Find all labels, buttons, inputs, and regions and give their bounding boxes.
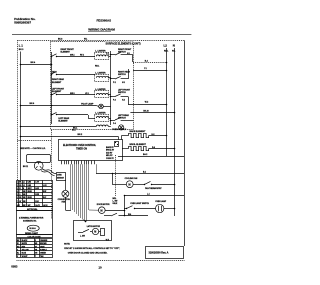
- limiter LL-2: [95, 72, 109, 81]
- svg-text:Y: Y: [19, 191, 20, 193]
- oven dashed wall right: [115, 155, 117, 196]
- svg-text:DOOR MOTOR: DOOR MOTOR: [97, 204, 110, 206]
- svg-text:BK-4: BK-4: [31, 61, 37, 64]
- L1 feed rail: [20, 52, 22, 181]
- svg-text:SW-1: SW-1: [70, 54, 75, 56]
- svg-text:LATCH MOTOR: LATCH MOTOR: [87, 225, 101, 228]
- warmer element coil: [20, 125, 111, 131]
- svg-text:WIRING DIAGRAM: WIRING DIAGRAM: [88, 28, 115, 32]
- wire to L2 y103.5: [128, 101, 167, 105]
- switch SW-1: [51, 54, 95, 57]
- svg-text:NOTE:: NOTE:: [64, 244, 70, 246]
- svg-text:BK-8: BK-8: [58, 39, 62, 41]
- label oven supply: [112, 129, 127, 131]
- svg-text:ELEMENT: ELEMENT: [52, 82, 62, 84]
- svg-text:RIGHT REAR: RIGHT REAR: [52, 78, 65, 81]
- svg-text:WHITE: WHITE: [22, 243, 28, 245]
- label BK near box bottom: [73, 128, 77, 130]
- schematic info box: [17, 211, 53, 236]
- svg-text:UNLK: UNLK: [113, 203, 119, 205]
- svg-text:BK-10: BK-10: [143, 110, 148, 112]
- svg-text:GY: GY: [19, 201, 21, 203]
- wire y215.9: [104, 213, 148, 216]
- see note text: [20, 147, 46, 150]
- chassis dashed outline bottom: [17, 260, 185, 262]
- dashed wire to L2: [133, 60, 167, 63]
- svg-text:SEE NOTE — CAUTION L.R.: SEE NOTE — CAUTION L.R.: [20, 147, 46, 150]
- oven lamp: [155, 200, 175, 213]
- svg-text:ELEMENT: ELEMENT: [61, 52, 71, 54]
- svg-text:L. SW: L. SW: [80, 236, 85, 238]
- svg-text:L 1: L 1: [19, 43, 23, 47]
- svg-text:BROIL RY: BROIL RY: [106, 150, 115, 152]
- wire row2 link: [95, 66, 111, 78]
- cooling fan feed: [112, 173, 127, 185]
- svg-text:FAN THERMOSTAT: FAN THERMOSTAT: [145, 187, 162, 190]
- pilot lamp: [51, 103, 111, 109]
- wire BK-2 to EOC: [20, 134, 119, 139]
- svg-text:E-LF: E-LF: [43, 197, 46, 199]
- svg-text:SENSOR: SENSOR: [57, 178, 65, 180]
- svg-text:SURFACE ELEMENTS (CON'T): SURFACE ELEMENTS (CON'T): [106, 43, 141, 46]
- svg-text:N: N: [173, 44, 175, 48]
- svg-text:2-TERMINAL POWER MOTOR: 2-TERMINAL POWER MOTOR: [19, 216, 44, 219]
- oven dashed wall left: [51, 130, 53, 219]
- svg-text:GREEN: GREEN: [40, 253, 47, 255]
- svg-text:5995268397: 5995268397: [14, 21, 31, 25]
- pilot lamp lower: [119, 125, 124, 130]
- note text: [64, 244, 120, 255]
- svg-text:W-5: W-5: [106, 240, 109, 242]
- label right rear element: [52, 71, 65, 84]
- svg-text:N: N: [23, 188, 24, 190]
- wire row3 link: [70, 93, 111, 95]
- infinite switch column feed: [110, 51, 112, 125]
- svg-text:SWITCH: SWITCH: [118, 74, 126, 76]
- label left rear element: [58, 117, 69, 123]
- switch block right rear: [111, 69, 131, 84]
- wire oven bus y156: [118, 153, 184, 157]
- svg-text:Y-1: Y-1: [144, 68, 147, 70]
- svg-text:BK-7: BK-7: [72, 129, 76, 131]
- header rule: [12, 34, 191, 36]
- wire to N y109: [130, 110, 175, 113]
- chassis dashed outline top: [18, 40, 185, 42]
- svg-text:RD-1: RD-1: [164, 51, 168, 53]
- switch block left front: [111, 89, 131, 104]
- limiter LL-3: [95, 89, 109, 98]
- svg-text:B-16-A: B-16-A: [30, 227, 37, 230]
- svg-text:P-1: P-1: [106, 53, 109, 55]
- svg-text:E-RF: E-RF: [43, 191, 46, 193]
- svg-text:M: M: [94, 231, 96, 234]
- svg-text:LF-1: LF-1: [85, 93, 89, 95]
- svg-text:BK-1: BK-1: [73, 128, 77, 130]
- label right front element: [61, 49, 75, 54]
- approval bar: [17, 207, 53, 211]
- svg-text:BK-2: BK-2: [78, 134, 84, 136]
- svg-text:ELEMENT: ELEMENT: [52, 91, 62, 93]
- svg-text:NEUT: NEUT: [28, 188, 32, 190]
- label left front element: [52, 89, 65, 94]
- part number box: [146, 247, 184, 259]
- svg-text:OVEN SUPPLY: OVEN SUPPLY: [112, 129, 127, 131]
- svg-text:H-4: H-4: [122, 98, 125, 101]
- svg-text:DLB RY: DLB RY: [106, 152, 113, 154]
- color code table: [16, 238, 52, 258]
- svg-text:RF-1: RF-1: [80, 54, 84, 56]
- connection chart table: [16, 180, 52, 207]
- svg-text:H-3: H-3: [122, 82, 125, 84]
- broil element: [122, 144, 175, 151]
- svg-text:ORANGE: ORANGE: [40, 239, 48, 242]
- EOC electronic oven control box: [59, 140, 123, 161]
- svg-text:YELLOW: YELLOW: [22, 250, 29, 252]
- svg-text:GRAY: GRAY: [40, 245, 45, 248]
- svg-text:ELEMENT: ELEMENT: [58, 121, 68, 123]
- ribbon bends to loads: [83, 210, 99, 221]
- svg-text:L. LIMITER: L. LIMITER: [95, 72, 106, 74]
- svg-text:BROIL ELEMENT: BROIL ELEMENT: [130, 144, 147, 146]
- svg-text:L2: L2: [164, 44, 168, 48]
- lamp bus y195.3: [124, 193, 184, 216]
- svg-text:LEFT REAR: LEFT REAR: [58, 117, 69, 120]
- svg-text:OVEN LAMP: OVEN LAMP: [155, 200, 167, 203]
- svg-text:RR-1: RR-1: [95, 66, 99, 68]
- svg-text:OVEN: OVEN: [57, 174, 62, 176]
- oven light switch: [124, 203, 156, 209]
- svg-text:MDL RY: MDL RY: [106, 155, 113, 157]
- svg-text:ELECTRONIC OVEN CONTROL: ELECTRONIC OVEN CONTROL: [63, 145, 97, 147]
- svg-text:OVEN DOOR CLOSED AND UNLOCKED.: OVEN DOOR CLOSED AND UNLOCKED.: [68, 252, 108, 255]
- svg-text:M: M: [128, 183, 131, 187]
- svg-text:FES366AS: FES366AS: [97, 19, 112, 23]
- svg-text:VIOLET: VIOLET: [22, 256, 29, 258]
- switch block left rear: [111, 114, 130, 125]
- wire row1 link: [70, 54, 111, 56]
- header publication number: [14, 17, 35, 24]
- svg-text:W-6: W-6: [128, 214, 131, 216]
- svg-text:BK-11: BK-11: [23, 166, 28, 168]
- EOC bottom pin comb: [62, 161, 95, 165]
- svg-text:M: M: [100, 209, 102, 213]
- svg-text:L1: L1: [23, 182, 25, 184]
- svg-text:COOLING FAN: COOLING FAN: [125, 177, 138, 180]
- svg-text:P-2: P-2: [113, 82, 116, 84]
- limiter LL-1: [95, 50, 109, 59]
- wire BK-6 from L1: [20, 103, 52, 106]
- svg-text:BA-2: BA-2: [143, 153, 147, 156]
- svg-text:L-1: L-1: [147, 193, 150, 195]
- fan thermostat switch: [144, 181, 176, 190]
- svg-text:SWITCH: SWITCH: [118, 92, 126, 94]
- svg-text:W-1: W-1: [84, 39, 87, 41]
- svg-text:SCHEMATIC NO.: SCHEMATIC NO.: [23, 219, 37, 222]
- switch block right front: [106, 49, 133, 62]
- relay block DLB: [115, 142, 119, 147]
- svg-text:TIMER ON: TIMER ON: [76, 148, 87, 150]
- svg-text:PURPLE: PURPLE: [40, 250, 47, 252]
- latch area labels: [113, 198, 119, 205]
- svg-text:B-1: B-1: [143, 171, 146, 173]
- wire lower bus y173.4: [96, 171, 184, 173]
- node N: [172, 44, 175, 217]
- oven sensor box: [57, 173, 66, 181]
- MAIN DIAGRAM: [16, 39, 184, 261]
- wire to L2 y121: [121, 120, 133, 122]
- svg-text:LEFT FRONT: LEFT FRONT: [52, 89, 65, 91]
- convection fan motor: [58, 180, 71, 211]
- svg-text:BROWN: BROWN: [40, 243, 47, 245]
- power plug: [23, 161, 43, 170]
- limiter LL-4: [95, 112, 111, 121]
- svg-text:SW-3: SW-3: [70, 93, 75, 95]
- svg-text:L-CH: L-CH: [43, 185, 46, 187]
- svg-text:OVEN LIGHT SWITCH: OVEN LIGHT SWITCH: [130, 203, 149, 205]
- bake element: [122, 130, 168, 139]
- svg-text:H-2: H-2: [152, 134, 155, 136]
- svg-text:LINE: LINE: [28, 185, 31, 187]
- chassis dashed lower-left wall: [18, 140, 52, 142]
- chassis dashed outline left: [17, 40, 19, 180]
- svg-text:10: 10: [98, 266, 102, 270]
- right border: [184, 40, 186, 246]
- svg-text:BL: BL: [17, 253, 19, 255]
- svg-text:L. LIMITER: L. LIMITER: [95, 50, 106, 52]
- svg-text:BK-3: BK-3: [19, 49, 24, 51]
- node L1 label: [19, 43, 24, 51]
- svg-text:03/03: 03/03: [11, 266, 18, 269]
- svg-text:BAKE ELEMENT: BAKE ELEMENT: [130, 130, 147, 133]
- svg-text:B-2: B-2: [145, 60, 148, 62]
- svg-text:W-2: W-2: [145, 101, 148, 103]
- color code header: [17, 235, 53, 239]
- terminal block: [27, 155, 51, 163]
- header title: [88, 28, 115, 32]
- switch SW-4: [51, 112, 95, 118]
- twisted pair wires: [41, 169, 56, 176]
- svg-text:L. LIMITER: L. LIMITER: [95, 112, 106, 114]
- svg-text:L-OV: L-OV: [35, 182, 38, 184]
- wire BK-4 from L1: [20, 61, 52, 65]
- ribbon harness wires: [71, 164, 97, 221]
- switch SW-2: [51, 71, 95, 75]
- cooling fan motor: [125, 177, 145, 187]
- node L2: [164, 44, 169, 157]
- switch SW-3: [51, 92, 95, 95]
- svg-text:BK-6: BK-6: [30, 103, 36, 105]
- latch switch box: [74, 221, 112, 242]
- svg-text:P-4: P-4: [113, 122, 116, 125]
- svg-text:N-OV: N-OV: [35, 188, 39, 190]
- door latch motor: [97, 204, 125, 214]
- svg-text:P-3: P-3: [113, 99, 116, 101]
- svg-text:R-6: R-6: [152, 147, 155, 149]
- surface elements dashed box: [51, 42, 134, 130]
- svg-text:BAKE RY: BAKE RY: [106, 146, 115, 149]
- svg-text:CONV RY: CONV RY: [106, 158, 115, 160]
- svg-text:BLACK: BLACK: [22, 239, 28, 242]
- svg-text:L2: L2: [23, 185, 25, 187]
- wire to L2 y69: [133, 68, 167, 71]
- svg-text:CIRCUIT 1 SHOWN WITH ALL CONTR: CIRCUIT 1 SHOWN WITH ALL CONTROLS SET TO…: [64, 247, 120, 250]
- svg-text:H-1: H-1: [127, 53, 130, 55]
- svg-text:LINE: LINE: [28, 182, 31, 184]
- EOC pin labels: [106, 146, 115, 160]
- svg-text:RIGHT FRONT: RIGHT FRONT: [61, 49, 75, 51]
- svg-text:316026300 Rev. A: 316026300 Rev. A: [149, 251, 169, 254]
- element switch feed column: [51, 52, 53, 124]
